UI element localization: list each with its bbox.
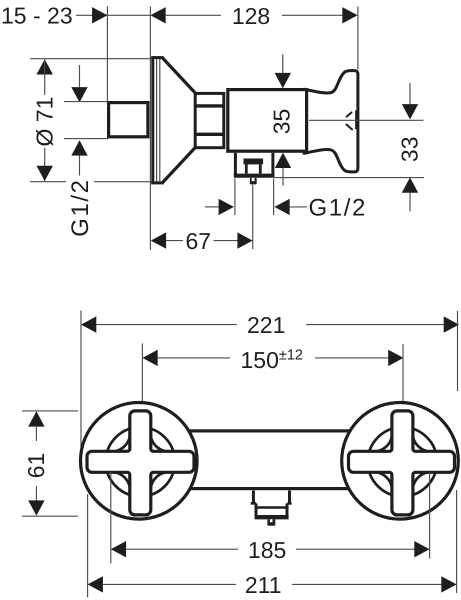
svg-text:67: 67 bbox=[186, 228, 212, 254]
svg-text:33: 33 bbox=[397, 137, 423, 163]
dimension label 221 bbox=[247, 312, 285, 338]
right cross handle bbox=[349, 411, 455, 515]
right escutcheon circle bbox=[342, 403, 459, 520]
extension line left (x=107) bbox=[106, 7, 108, 102]
dimension label G1/2 right bbox=[309, 194, 367, 221]
dimension line 185 bbox=[111, 541, 430, 557]
dimension 35 top arrow bbox=[275, 54, 291, 88]
dimension line diameter 71 bbox=[37, 59, 53, 181]
dimension label 61 bbox=[23, 453, 49, 479]
extension line 150 right bbox=[402, 344, 404, 410]
svg-text:61: 61 bbox=[23, 453, 49, 479]
svg-text:G1/2: G1/2 bbox=[67, 178, 94, 236]
outlet spout side bbox=[234, 153, 275, 185]
left cross handle bbox=[87, 411, 194, 515]
dimension label 185 bbox=[248, 537, 286, 563]
extension line 61 bottom bbox=[22, 515, 78, 517]
dimension line G1/2 left bbox=[71, 65, 87, 176]
front outlet spout bbox=[251, 491, 292, 526]
extension line 221 left bbox=[80, 311, 82, 448]
extension line pipe top bbox=[64, 101, 108, 103]
dimension label 128 bbox=[232, 3, 270, 29]
svg-text:211: 211 bbox=[245, 572, 282, 598]
extension line escutcheon (x=150) bbox=[149, 7, 151, 251]
extension line top of escutcheon bbox=[30, 58, 157, 60]
svg-text:G1/2: G1/2 bbox=[309, 194, 367, 221]
left handle ring bbox=[106, 427, 175, 496]
svg-text:35: 35 bbox=[268, 109, 294, 135]
extension line bottom of escutcheon bbox=[30, 181, 152, 183]
extension line 211 left bbox=[87, 494, 89, 598]
outlet centerline bbox=[252, 185, 254, 249]
extension line handle (x=358) bbox=[357, 7, 359, 70]
dimension line 15-23 / 128 with arrows bbox=[76, 7, 358, 23]
handle indicator marks bbox=[347, 112, 352, 129]
dimension line 150 bbox=[142, 350, 403, 366]
extension line 185 left bbox=[110, 472, 112, 564]
handle side profile bbox=[304, 71, 358, 172]
left escutcheon circle bbox=[81, 403, 198, 520]
extension line outlet right bbox=[273, 179, 275, 216]
dimension line G1/2 right bbox=[205, 199, 307, 215]
extension line outlet bottom right bbox=[275, 177, 424, 179]
svg-text:15 - 23: 15 - 23 bbox=[1, 3, 73, 29]
dimension line 221 bbox=[81, 316, 459, 332]
dimension line 33 bbox=[402, 83, 418, 212]
extension line 221 right bbox=[457, 311, 459, 391]
dimension 35 bottom arrow bbox=[275, 153, 291, 186]
escutcheon cone bbox=[151, 57, 195, 183]
svg-text:185: 185 bbox=[248, 537, 286, 563]
extension line 150 left bbox=[141, 343, 143, 409]
svg-text:128: 128 bbox=[232, 3, 270, 29]
dimension label 150 plus-minus 12 bbox=[241, 347, 303, 373]
extension line 61 top bbox=[22, 410, 78, 412]
extension line 211 right bbox=[456, 490, 458, 593]
body bar bbox=[130, 431, 409, 489]
extension line pipe bottom bbox=[64, 138, 108, 140]
handle face seam bbox=[355, 110, 357, 129]
union nut bbox=[195, 93, 225, 147]
svg-text:221: 221 bbox=[247, 312, 285, 338]
dimension line 61 bbox=[28, 411, 44, 515]
svg-text:150±12: 150±12 bbox=[241, 347, 303, 373]
extension line 185 right bbox=[429, 472, 431, 559]
extension line outlet left bbox=[234, 179, 236, 216]
dimension line 211 bbox=[88, 576, 457, 592]
dimension label 35 bbox=[268, 109, 294, 135]
dimension label 211 bbox=[245, 572, 282, 598]
centerline body-handle bbox=[309, 119, 423, 121]
dimension label 33 bbox=[397, 137, 423, 163]
dimension label G1/2 left bbox=[67, 178, 94, 236]
valve body bbox=[228, 90, 307, 152]
dimension line 67 bbox=[151, 232, 253, 248]
right handle ring bbox=[368, 427, 437, 496]
svg-text:Ø 71: Ø 71 bbox=[31, 97, 57, 147]
dimension label Ø 71 bbox=[31, 97, 57, 147]
dimension label 15 - 23 bbox=[1, 3, 73, 29]
wall union pipe bbox=[109, 103, 148, 137]
dimension label 67 bbox=[186, 228, 212, 254]
